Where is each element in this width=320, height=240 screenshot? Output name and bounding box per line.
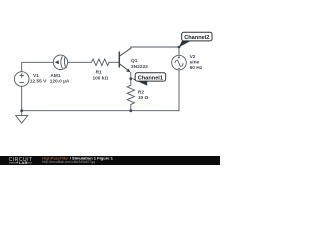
- wire V1 top to AM1: [22, 62, 54, 71]
- svg-text:Channel1: Channel1: [138, 76, 163, 82]
- logo bolt: [16, 161, 18, 164]
- logo rule left: [9, 162, 16, 164]
- svg-text:Q1: Q1: [131, 58, 138, 64]
- svg-text:V1: V1: [33, 73, 39, 79]
- node junction emitter Channel1: [129, 77, 132, 80]
- node junction V1-ground-rail: [20, 109, 23, 112]
- svg-text:LAB: LAB: [19, 160, 28, 165]
- svg-text:http://circuitlab.com/c8te3d5a: http://circuitlab.com/c8te3d5a627gq: [42, 160, 95, 164]
- resistor R2: [127, 85, 134, 104]
- transistor Q1: [119, 48, 131, 71]
- svg-text:60 Hz: 60 Hz: [190, 65, 203, 71]
- wire V2 bottom lead: [178, 70, 180, 111]
- node junction collector V2 Channel2: [178, 46, 181, 49]
- resistor R1: [92, 59, 110, 66]
- svg-text:120.0 µA: 120.0 µA: [50, 78, 70, 84]
- sine source V2: [172, 55, 187, 70]
- svg-text:sine: sine: [190, 59, 200, 65]
- svg-text:2N2222: 2N2222: [131, 64, 148, 70]
- wire bottom rail: [22, 110, 179, 112]
- flag Channel2: [182, 32, 212, 41]
- svg-text:12.55 V: 12.55 V: [30, 78, 47, 84]
- flag tail Channel1: [131, 78, 148, 86]
- ground: [16, 116, 28, 124]
- svg-text:V2: V2: [190, 54, 196, 60]
- wire V2 top lead: [178, 47, 180, 55]
- svg-text:100 kΩ: 100 kΩ: [92, 75, 108, 81]
- node junction R2 bottom: [129, 109, 132, 112]
- wire emitter vertical lead: [130, 73, 132, 86]
- svg-text:AM1: AM1: [50, 73, 60, 79]
- ammeter AM1: [53, 55, 67, 69]
- svg-text:R1: R1: [96, 69, 102, 75]
- wire R2 bottom lead: [130, 104, 132, 110]
- logo rule right: [27, 162, 32, 164]
- flag tail Channel2: [179, 41, 191, 47]
- voltage source V1: [14, 72, 29, 87]
- flag Channel1: [135, 73, 166, 81]
- svg-text:Channel2: Channel2: [184, 35, 209, 41]
- footer bar: [0, 156, 220, 165]
- svg-text:10 Ω: 10 Ω: [138, 95, 149, 101]
- wire collector to top rail: [131, 47, 179, 48]
- wire R1 to Q1 base: [109, 61, 119, 63]
- wire V1 bottom to ground: [21, 86, 23, 115]
- wire AM1 to R1: [68, 61, 92, 63]
- svg-text:R2: R2: [138, 89, 144, 95]
